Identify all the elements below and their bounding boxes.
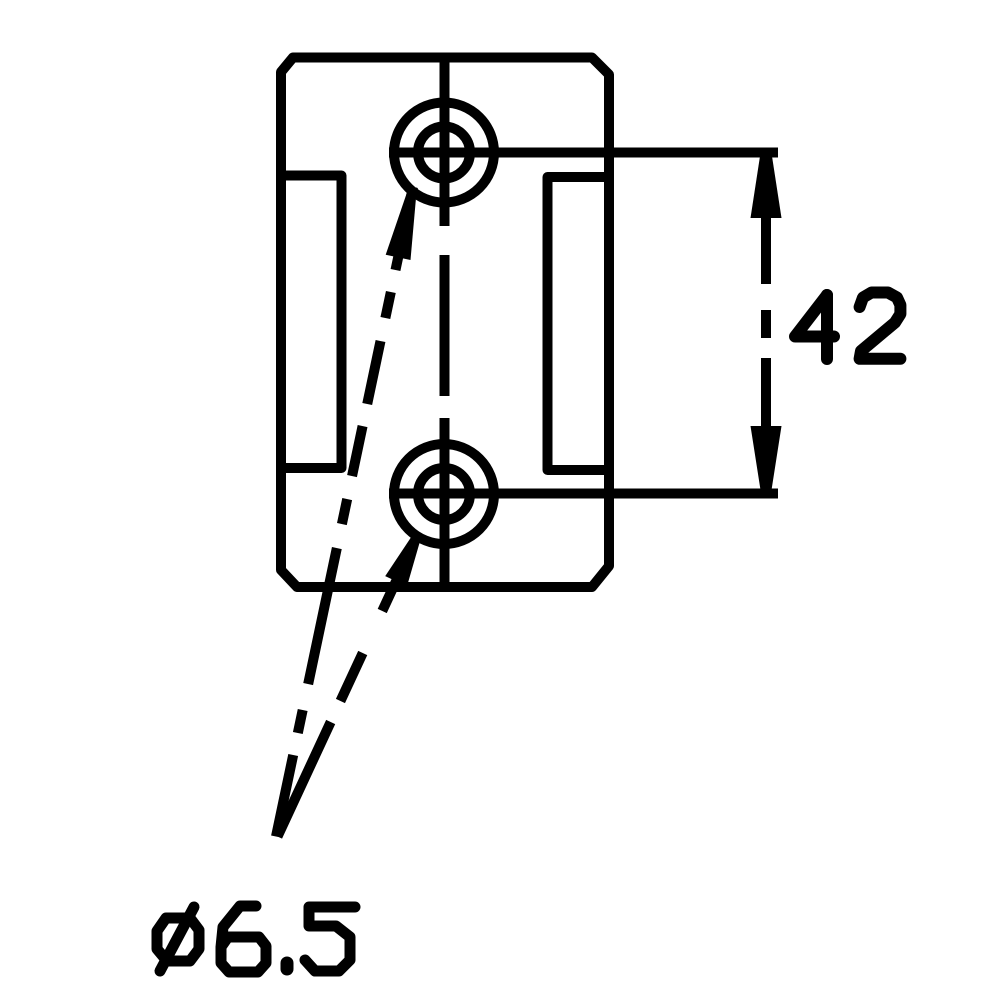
leader arrowhead to hole H1 xyxy=(386,186,417,260)
right slot xyxy=(548,177,610,470)
hole diameter text : decimal point xyxy=(281,963,294,969)
leader arrowhead to hole H2 xyxy=(385,532,421,586)
vertical centerline segment 2 xyxy=(440,255,450,396)
hole diameter text : glyph 6 xyxy=(221,906,266,972)
hole H2 inner circle xyxy=(418,468,470,520)
dimension line 42 segment 1 xyxy=(761,155,771,284)
dimension text 42 : glyph 2 xyxy=(860,293,901,359)
hole H2 outer circle xyxy=(394,444,494,544)
dimension line 42 segment 3 xyxy=(761,358,771,488)
hole H2 horizontal centerline / extension line xyxy=(389,489,778,499)
dimension arrow down xyxy=(751,426,782,490)
left slot xyxy=(281,176,342,469)
leader line to hole H1 xyxy=(276,187,413,837)
hole H1 outer circle xyxy=(394,103,494,203)
vertical centerline segment 3 xyxy=(440,418,450,587)
leader line to hole H2 xyxy=(278,534,419,837)
dimension line 42 segment 2 xyxy=(761,310,771,338)
dimension arrow up xyxy=(751,153,782,218)
vertical centerline segment 1 xyxy=(440,57,450,226)
hole H1 inner circle xyxy=(418,127,470,179)
hole diameter text : glyph 5 xyxy=(305,907,355,971)
hole diameter text : glyph diameter symbol xyxy=(157,907,199,971)
plate outline xyxy=(281,58,609,588)
hole H1 horizontal centerline / extension line xyxy=(389,148,778,158)
dimension text 42 : glyph 4 xyxy=(795,295,834,359)
